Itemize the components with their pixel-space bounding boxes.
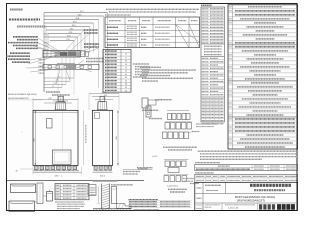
side view exhaust cap	[98, 102, 108, 110]
bracket label near fitting B	[183, 179, 194, 182]
platform	[117, 204, 132, 209]
svg-text:(RUFH24E05AW23T): (RUFH24E05AW23T)	[237, 199, 265, 203]
rear fitting rows	[164, 160, 199, 193]
clearance label box	[88, 185, 96, 196]
svg-text:36: 36	[125, 90, 127, 92]
side view right dim	[116, 110, 119, 165]
svg-text:194: 194	[103, 98, 106, 100]
svg-text:75.5: 75.5	[44, 45, 48, 47]
side view bottom stubs and dim	[93, 166, 113, 178]
left leader to pipe details	[123, 168, 153, 174]
svg-text:45: 45	[125, 80, 127, 82]
top view leader lines	[26, 30, 98, 84]
clearance dim arrows	[97, 187, 100, 204]
svg-text:305.5: 305.5	[102, 92, 107, 94]
gas consumption table	[195, 174, 298, 182]
narrow spec strip table	[201, 7, 225, 124]
title top view label	[9, 19, 40, 21]
clearance unit	[112, 187, 117, 204]
company name Rinnai	[259, 204, 296, 209]
svg-text:75: 75	[36, 18, 38, 20]
riser pipe	[35, 183, 47, 204]
svg-text:48: 48	[125, 84, 127, 86]
main specification table	[228, 5, 298, 149]
subtitle flex pipe spec	[17, 26, 46, 28]
installation space table	[105, 17, 200, 48]
front view body	[33, 110, 78, 165]
front view exhaust cap	[53, 101, 68, 110]
wall hatched	[102, 184, 110, 210]
L dimension label	[152, 156, 157, 158]
svg-text:139.5: 139.5	[44, 37, 49, 39]
side view top dims	[89, 92, 119, 110]
side flue collar stub	[100, 96, 105, 101]
svg-text:470(····): 470(····)	[54, 176, 62, 178]
pipe fitting row 2	[165, 122, 192, 130]
left label block upper	[8, 37, 38, 49]
side view body	[93, 110, 113, 165]
pipe fitting row 1	[167, 111, 190, 120]
svg-text:(RUFH24E05AW23T): (RUFH24E05AW23T)	[8, 97, 29, 100]
small figure below paragraph	[142, 98, 172, 110]
horizontal section divider	[7, 180, 145, 182]
svg-text:RUFH-E2405AW2-3(A-301A): RUFH-E2405AW2-3(A-301A)	[8, 93, 37, 96]
gas consumption heading	[195, 172, 214, 174]
connection port table	[103, 50, 131, 93]
svg-text:45: 45	[125, 87, 127, 89]
gas type heading	[195, 162, 220, 164]
gas type table	[195, 165, 298, 171]
svg-text:98.5: 98.5	[44, 42, 48, 44]
drawing title text	[250, 185, 291, 190]
model cell	[197, 195, 276, 203]
svg-text:71: 71	[125, 57, 127, 59]
notes under main table	[198, 151, 297, 159]
bathtub upper	[11, 184, 36, 193]
fan side labels	[34, 18, 38, 24]
installation legend block	[128, 200, 192, 210]
svg-text:35: 35	[52, 86, 54, 88]
bathtub lower	[9, 201, 35, 212]
svg-text:56: 56	[125, 64, 127, 66]
ground line with hatch	[92, 209, 131, 212]
pipe bracket detail	[146, 106, 162, 119]
flue collar stub	[58, 96, 64, 101]
svg-text:54: 54	[125, 61, 127, 63]
pipe detail vertical reference line	[138, 108, 148, 169]
svg-text:75: 75	[125, 54, 127, 56]
svg-text:45.5: 45.5	[55, 80, 58, 82]
capability table notes	[55, 202, 85, 209]
svg-text:48: 48	[125, 77, 127, 79]
front view left small box	[47, 119, 53, 129]
note block right of port table	[133, 64, 150, 77]
svg-text:45: 45	[125, 71, 127, 73]
svg-text:156.5: 156.5	[44, 34, 49, 36]
top view dimension fan	[44, 11, 108, 92]
approval row	[196, 203, 257, 211]
front view vertical dim 600	[33, 110, 36, 165]
svg-text:75: 75	[125, 67, 127, 69]
svg-text:2-φ42×138.5: 2-φ42×138.5	[167, 184, 178, 187]
title block name cell	[197, 185, 222, 190]
margin mark	[22, 132, 24, 134]
front view top dimension lines	[33, 98, 78, 110]
svg-text:600: 600	[116, 136, 118, 139]
svg-text:305.5: 305.5	[100, 176, 106, 178]
between views dim	[84, 111, 86, 166]
svg-text:1-13+C.43: 1-13+C.43	[228, 207, 239, 209]
front view bottom dims	[16, 167, 82, 178]
unit note mm	[10, 9, 23, 11]
circulation pump	[47, 190, 53, 202]
svg-text:30: 30	[16, 170, 18, 172]
svg-text:L=155: L=155	[152, 156, 157, 158]
clearance heading line2	[111, 184, 133, 186]
svg-text:2020.02: 2020.02	[205, 207, 212, 209]
clearance heading line1	[93, 180, 117, 182]
top view unit outline	[43, 51, 99, 70]
spec strip header	[201, 4, 212, 6]
pipe name labels under side view	[94, 170, 113, 172]
title block frame	[195, 182, 298, 210]
svg-text:42: 42	[125, 74, 127, 76]
svg-text:470: 470	[48, 98, 51, 100]
svg-text:51: 51	[34, 22, 36, 24]
middle note paragraph	[140, 67, 196, 81]
border frame	[7, 4, 298, 211]
fitting caption	[163, 147, 197, 150]
right label block	[84, 30, 104, 62]
strip footnotes	[196, 124, 218, 127]
pipe name labels under front view	[34, 170, 80, 172]
lower dimension rows of top view	[39, 34, 75, 96]
front view control panel	[53, 150, 72, 164]
installation space note lines	[105, 9, 199, 15]
model numbers under top view	[8, 93, 42, 100]
left label block lower	[6, 53, 30, 62]
svg-text:10.5: 10.5	[53, 83, 56, 85]
capability table	[55, 184, 89, 200]
front view bottom connection stubs	[35, 166, 77, 171]
pipe fitting row 3	[163, 132, 200, 139]
